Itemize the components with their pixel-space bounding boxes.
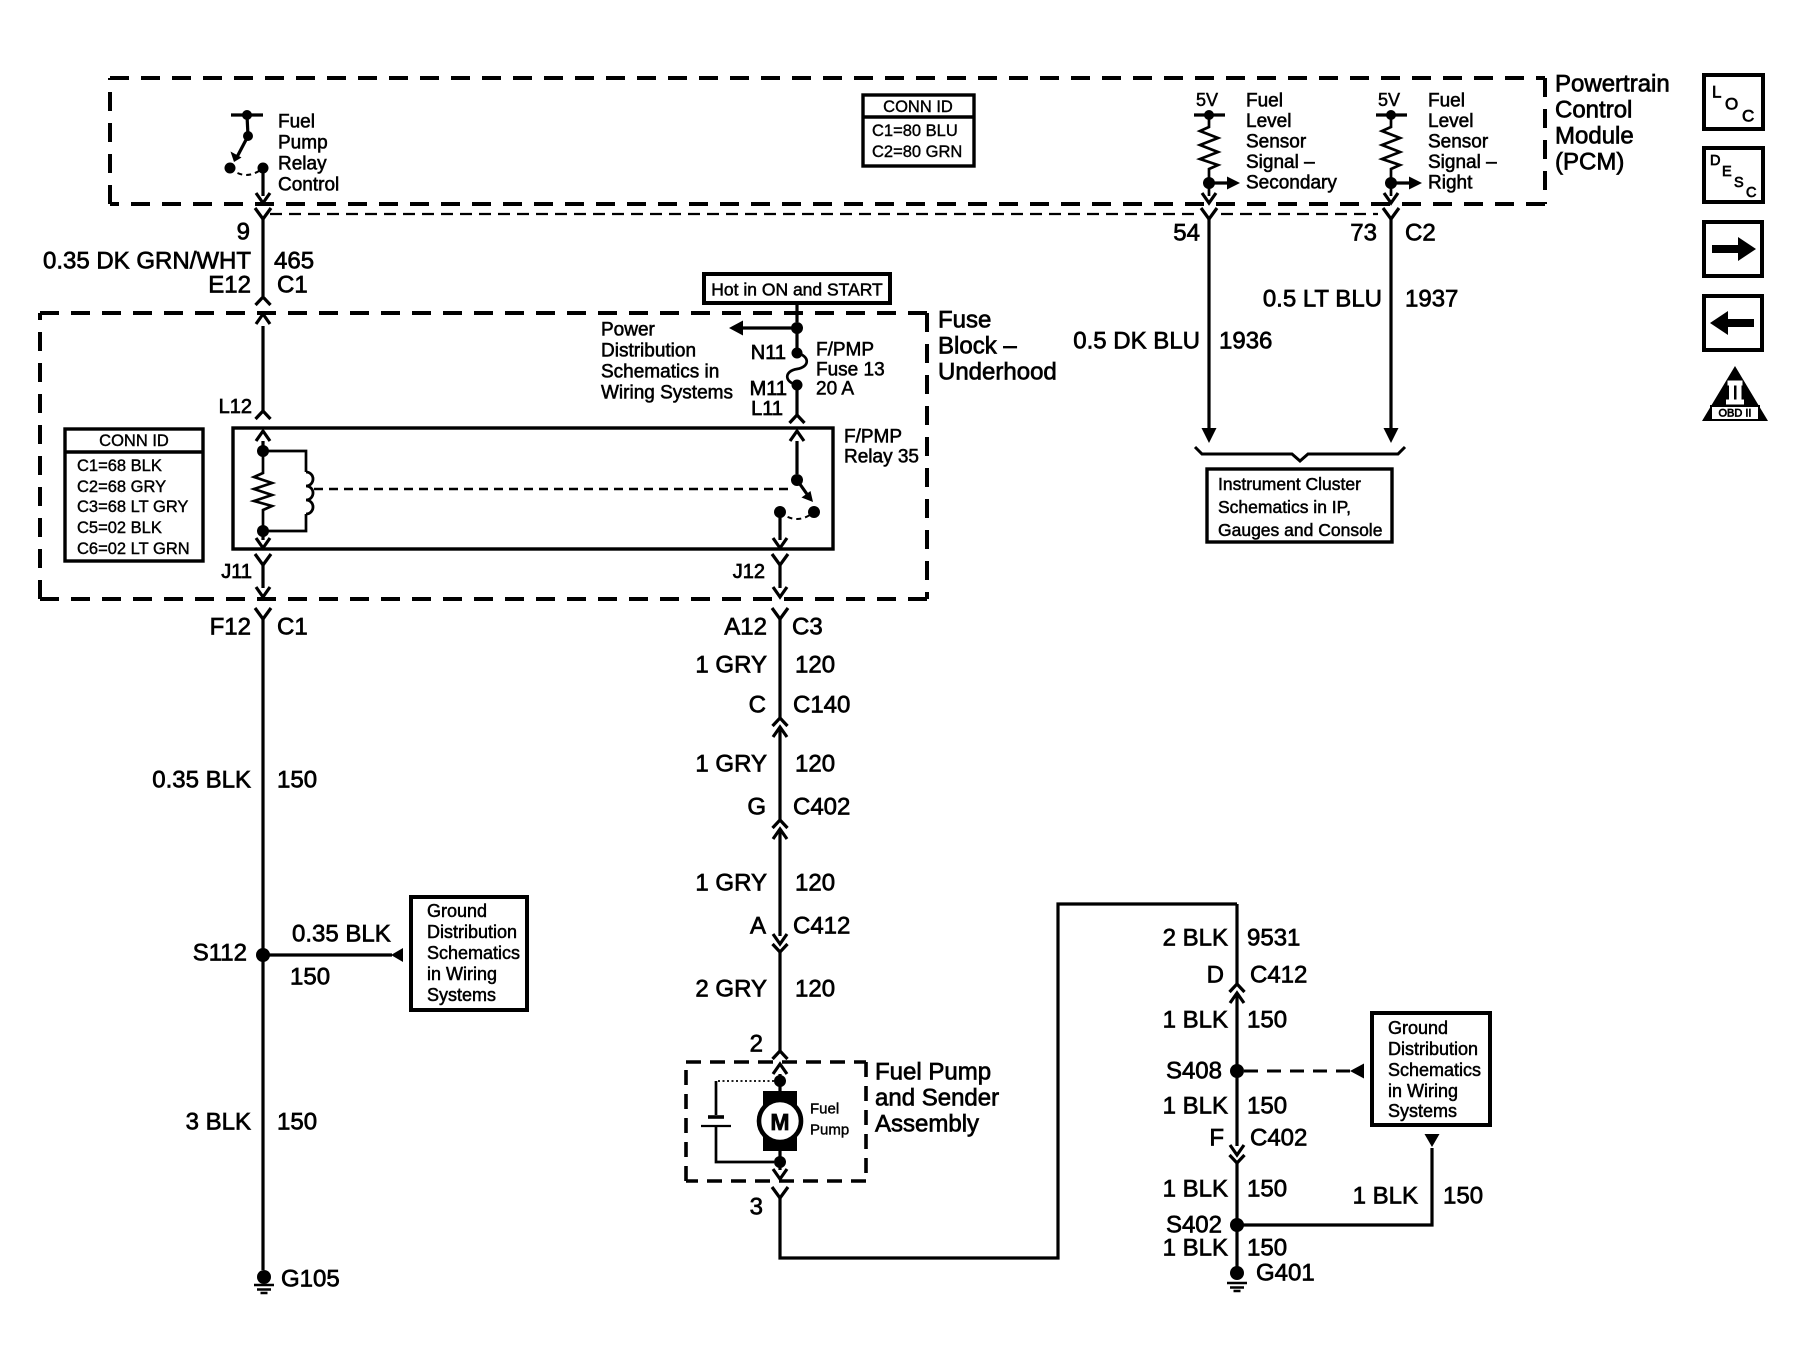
wire: PCM 54 to instrument cluster, ckt 1936 0.5 DK BLU (1201, 208, 1217, 443)
wire: power distribution reference arrow (729, 321, 797, 336)
fuse F/PMP Fuse 13 20A (787, 328, 807, 415)
svg-text:Schematics: Schematics (1388, 1060, 1481, 1080)
connector C / C140 (749, 692, 851, 738)
CONN ID table for fuse block connectors (65, 429, 203, 561)
connector label A12 / C3 (724, 614, 822, 641)
svg-text:Fuel: Fuel (1246, 91, 1283, 112)
svg-text:Schematics in IP,: Schematics in IP, (1218, 497, 1351, 517)
label: Power Distribution Schematics in Wiring Systems (601, 320, 733, 404)
terminal label M11 (750, 378, 787, 400)
svg-text:J12: J12 (733, 561, 765, 583)
svg-text:C402: C402 (793, 794, 850, 821)
svg-text:Distribution: Distribution (1388, 1039, 1478, 1059)
terminal label N11 (751, 342, 786, 364)
fuse block underhood dashed box (40, 313, 927, 599)
svg-text:D: D (1207, 962, 1224, 989)
svg-text:54: 54 (1173, 220, 1200, 247)
relay actuation dashed link (314, 488, 791, 490)
svg-text:M: M (770, 1109, 789, 1135)
ground distribution schematics box (left) (411, 897, 527, 1010)
wire: PCM 73 to instrument cluster, ckt 1937 0.5 LT BLU (1383, 208, 1399, 443)
svg-text:5V: 5V (1196, 90, 1218, 110)
svg-text:Pump: Pump (810, 1122, 849, 1139)
wire: S112 to G105, ckt 150 3 BLK (261, 955, 264, 1270)
svg-text:L12: L12 (219, 396, 252, 418)
svg-text:1 BLK: 1 BLK (1163, 1176, 1228, 1203)
svg-text:150: 150 (1247, 1007, 1287, 1034)
svg-text:C412: C412 (1250, 962, 1307, 989)
wire label 1 BLK 150 (1163, 1176, 1287, 1203)
wire: PCM pin 9 to fuse block, ckt 465 DK GRN/WHT (255, 208, 271, 324)
svg-text:C3=68 LT GRY: C3=68 LT GRY (77, 498, 188, 516)
svg-text:Distribution: Distribution (427, 922, 517, 942)
svg-text:150: 150 (1247, 1093, 1287, 1120)
node S402 splice (1166, 1212, 1244, 1239)
connector G / C402 (747, 794, 850, 840)
svg-text:C1=68 BLK: C1=68 BLK (77, 457, 162, 475)
resistor: fuel level sensor signal pull-up (secondary), 5V (1194, 90, 1240, 203)
svg-text:C: C (1742, 107, 1754, 126)
svg-text:Fuse 13: Fuse 13 (816, 360, 885, 381)
svg-text:and Sender: and Sender (875, 1085, 999, 1112)
svg-text:S: S (1734, 175, 1744, 191)
motor M fuel pump (759, 1075, 801, 1168)
CONN ID table for PCM connectors (863, 95, 974, 166)
wire label 0.5 DK BLU 1936 (1073, 328, 1272, 355)
wire label 1 GRY 120 (695, 751, 835, 778)
svg-text:465: 465 (274, 248, 314, 275)
connector into pump assembly (773, 1051, 788, 1081)
node S408 splice (1166, 1058, 1244, 1085)
terminal label J11 (221, 561, 252, 583)
wire: F12 to S112, ckt 150 0.35 BLK (255, 608, 271, 955)
wire into relay coil from L12 (256, 326, 271, 451)
wire label 1 BLK 150 (branch) (1353, 1183, 1483, 1210)
icon OBD II triangle (1702, 366, 1768, 421)
svg-text:Relay 35: Relay 35 (844, 447, 919, 468)
svg-text:1937: 1937 (1405, 286, 1458, 313)
svg-text:Signal –: Signal – (1428, 152, 1497, 173)
svg-text:(PCM): (PCM) (1555, 149, 1624, 176)
svg-text:120: 120 (795, 751, 835, 778)
label: F/PMP Fuse 13 20 A (816, 340, 885, 400)
terminal label L11 (751, 398, 783, 420)
svg-text:F/PMP: F/PMP (844, 427, 902, 448)
wire: pump to pin 3 (773, 1162, 787, 1179)
svg-text:M11: M11 (750, 378, 787, 400)
label: Fuel Level Sensor Signal - Secondary (1246, 91, 1337, 194)
ground G105 (254, 1266, 340, 1294)
svg-text:Block –: Block – (938, 333, 1017, 360)
svg-text:C1=80 BLU: C1=80 BLU (872, 122, 958, 140)
svg-text:Level: Level (1428, 111, 1473, 132)
svg-text:120: 120 (795, 870, 835, 897)
wire: A12 to C140, ckt 120 1 GRY (772, 608, 788, 718)
svg-text:Sensor: Sensor (1428, 132, 1489, 153)
svg-text:Signal –: Signal – (1246, 152, 1315, 173)
pin label 2 (750, 1031, 763, 1058)
svg-text:Schematics in: Schematics in (601, 362, 719, 383)
svg-text:E12: E12 (208, 272, 251, 299)
label: Fuel Pump Relay Control (278, 112, 339, 196)
wire: C402 to C412, ckt 120 1 GRY (778, 829, 781, 936)
wire: S408 to F C402, ckt 150 1 BLK (1235, 1071, 1238, 1146)
svg-text:0.35 BLK: 0.35 BLK (152, 767, 251, 794)
svg-text:Fuel: Fuel (278, 112, 315, 133)
svg-text:1 BLK: 1 BLK (1163, 1007, 1228, 1034)
svg-text:S112: S112 (193, 940, 247, 967)
svg-text:Control: Control (278, 175, 339, 196)
connector A / C412 (750, 913, 850, 953)
svg-text:1 BLK: 1 BLK (1353, 1183, 1418, 1210)
svg-text:Fuel: Fuel (810, 1101, 839, 1118)
svg-text:1 GRY: 1 GRY (695, 870, 767, 897)
label: Fuse Block - Underhood (938, 307, 1057, 386)
svg-text:2: 2 (750, 1031, 763, 1058)
svg-text:D: D (1710, 153, 1720, 169)
wire: J12 to fuse block edge (772, 554, 788, 597)
instrument cluster schematics box (1207, 469, 1392, 542)
svg-text:C: C (749, 692, 766, 719)
svg-text:9: 9 (237, 219, 250, 246)
wire: down to D C412 (1235, 904, 1238, 984)
svg-text:3: 3 (750, 1194, 763, 1221)
fuel pump and sender assembly dashed box (686, 1062, 866, 1181)
svg-text:20 A: 20 A (816, 379, 854, 400)
svg-text:1936: 1936 (1219, 328, 1272, 355)
svg-text:Fuel Pump: Fuel Pump (875, 1059, 991, 1086)
svg-text:G401: G401 (1256, 1260, 1315, 1287)
label: Fuel Level Sensor Signal - Right (1428, 91, 1497, 194)
svg-text:1 BLK: 1 BLK (1163, 1235, 1228, 1262)
label: Fuel Pump (inside assembly) (810, 1101, 849, 1139)
svg-text:Systems: Systems (1388, 1101, 1457, 1121)
svg-text:Schematics: Schematics (427, 943, 520, 963)
svg-text:L: L (1712, 83, 1721, 102)
svg-text:Systems: Systems (427, 985, 496, 1005)
svg-text:N11: N11 (751, 342, 786, 364)
svg-text:A12: A12 (724, 614, 767, 641)
svg-text:Fuel: Fuel (1428, 91, 1465, 112)
svg-text:in Wiring: in Wiring (427, 964, 497, 984)
svg-text:G: G (747, 794, 766, 821)
svg-text:Module: Module (1555, 123, 1634, 150)
terminal label L12 (219, 396, 252, 418)
icon box left arrow (1704, 296, 1762, 350)
svg-text:Right: Right (1428, 173, 1473, 194)
relay F/PMP Relay 35 box (233, 428, 833, 549)
switch: fuel pump relay control driver inside PCM (225, 110, 271, 203)
svg-text:Powertrain: Powertrain (1555, 71, 1670, 98)
wire label 1 GRY 120 (695, 870, 835, 897)
svg-text:O: O (1725, 95, 1738, 114)
svg-text:Ground: Ground (427, 901, 487, 921)
wire label 0.35 BLK 150 (152, 767, 317, 794)
wire label 1 BLK 150 (1163, 1235, 1287, 1262)
svg-text:Secondary: Secondary (1246, 173, 1337, 194)
svg-text:Sensor: Sensor (1246, 132, 1307, 153)
svg-text:C140: C140 (793, 692, 850, 719)
connector labels 54, 73, C2 (1173, 220, 1200, 247)
battery cell (sender) (701, 1081, 774, 1162)
svg-text:C2=68 GRY: C2=68 GRY (77, 478, 166, 496)
svg-text:C2=80 GRN: C2=80 GRN (872, 143, 962, 161)
svg-text:Underhood: Underhood (938, 359, 1057, 386)
svg-text:F12: F12 (210, 614, 251, 641)
relay coil resistor (parallel R) (254, 445, 272, 531)
brace to instrument cluster (1195, 447, 1405, 461)
PCM module box (Powertrain Control Module) (110, 78, 1545, 204)
connector into relay (L11) (790, 415, 805, 474)
label: Fuel Pump and Sender Assembly (875, 1059, 999, 1138)
svg-text:0.5 LT BLU: 0.5 LT BLU (1263, 286, 1382, 313)
connector label E12 / C1 (208, 272, 307, 299)
wire label 1 BLK 150 (1163, 1093, 1287, 1120)
svg-text:in Wiring: in Wiring (1388, 1081, 1458, 1101)
svg-text:C412: C412 (793, 913, 850, 940)
wire: C412 to S408, ckt 150 1 BLK (1235, 993, 1238, 1071)
svg-text:1 BLK: 1 BLK (1163, 1093, 1228, 1120)
svg-text:L11: L11 (751, 398, 783, 420)
svg-text:C2: C2 (1405, 220, 1436, 247)
svg-text:Level: Level (1246, 111, 1291, 132)
svg-text:150: 150 (277, 1109, 317, 1136)
wire: C402 to S402, ckt 150 1 BLK (1235, 1163, 1238, 1225)
svg-text:J11: J11 (221, 561, 252, 583)
relay switch contact (773, 474, 820, 548)
svg-text:Fuse: Fuse (938, 307, 991, 334)
svg-text:0.35 BLK: 0.35 BLK (292, 921, 391, 948)
svg-text:Assembly: Assembly (875, 1111, 979, 1138)
svg-text:9531: 9531 (1247, 925, 1300, 952)
PCM label text (1555, 71, 1670, 176)
svg-text:OBD II: OBD II (1718, 408, 1751, 420)
wire: coil to J11 (256, 531, 270, 548)
wire label 2 BLK 9531 (1163, 925, 1301, 952)
svg-text:Instrument Cluster: Instrument Cluster (1218, 474, 1361, 494)
resistor: fuel level sensor signal pull-up (right), 5V (1376, 90, 1422, 203)
wire label 1 GRY 120 (695, 652, 835, 679)
svg-text:150: 150 (1443, 1183, 1483, 1210)
wire label 0.5 LT BLU 1937 (1263, 286, 1459, 313)
svg-text:C402: C402 (1250, 1125, 1307, 1152)
svg-text:Power: Power (601, 320, 656, 341)
wire: C140 to C402, ckt 120 1 GRY (778, 727, 781, 820)
wire: S402 branch to ground distribution box, 1 BLK 150 (1237, 1134, 1440, 1225)
svg-text:3 BLK: 3 BLK (186, 1109, 251, 1136)
icon box DESC (1704, 148, 1763, 202)
svg-text:0.5 DK BLU: 0.5 DK BLU (1073, 328, 1200, 355)
wire: pin 3 to right ladder (ground path) (772, 904, 1237, 1258)
svg-text:150: 150 (277, 767, 317, 794)
hot in ON and START feed box (704, 274, 890, 303)
svg-text:150: 150 (290, 964, 330, 991)
svg-text:120: 120 (795, 976, 835, 1003)
svg-text:Ground: Ground (1388, 1018, 1448, 1038)
svg-text:1 GRY: 1 GRY (695, 751, 767, 778)
node S112 splice (193, 940, 270, 967)
wire: C412 to pump pin 2, ckt 120 2 GRY (778, 952, 781, 1051)
svg-text:Wiring Systems: Wiring Systems (601, 383, 733, 404)
svg-text:F: F (1209, 1125, 1224, 1152)
svg-text:F/PMP: F/PMP (816, 340, 874, 361)
svg-text:A: A (750, 913, 766, 940)
svg-text:1 GRY: 1 GRY (695, 652, 767, 679)
wire: S402 to G401, ckt 150 1 BLK (1235, 1225, 1238, 1273)
svg-text:CONN ID: CONN ID (99, 432, 169, 450)
connector label F12 / C1 (210, 614, 308, 641)
wire: S112 to ground distribution reference (263, 948, 403, 962)
terminal label J12 (733, 561, 765, 583)
svg-text:Gauges and Console: Gauges and Console (1218, 520, 1382, 540)
dashed reference: S408 to ground distribution box (1244, 1064, 1364, 1079)
svg-text:73: 73 (1350, 220, 1377, 247)
connector face dashed line C1/C2 (270, 213, 1378, 215)
node label pin 9 (237, 219, 250, 246)
svg-text:150: 150 (1247, 1176, 1287, 1203)
ground G401 (1227, 1260, 1315, 1292)
svg-text:2 BLK: 2 BLK (1163, 925, 1228, 952)
wire label 1 BLK 150 (1163, 1007, 1287, 1034)
svg-text:S408: S408 (1166, 1058, 1222, 1085)
svg-text:E: E (1722, 164, 1732, 180)
svg-text:Control: Control (1555, 97, 1632, 124)
icon box right arrow (1704, 222, 1762, 276)
connector D / C412 (1207, 962, 1308, 1004)
icon box LOC (1704, 75, 1763, 129)
svg-text:Hot in ON and START: Hot in ON and START (711, 280, 883, 300)
svg-text:C: C (1746, 185, 1756, 201)
label: F/PMP Relay 35 (844, 427, 919, 468)
wire: J11 to fuse block edge (255, 554, 271, 597)
wire label 3 BLK 150 (186, 1109, 317, 1136)
svg-text:5V: 5V (1378, 90, 1400, 110)
svg-text:Pump: Pump (278, 133, 328, 154)
svg-text:Distribution: Distribution (601, 341, 696, 362)
svg-text:C6=02 LT GRN: C6=02 LT GRN (77, 540, 190, 558)
svg-text:CONN ID: CONN ID (883, 98, 953, 116)
svg-text:C1: C1 (277, 614, 308, 641)
svg-text:0.35 DK GRN/WHT: 0.35 DK GRN/WHT (43, 248, 251, 275)
wire label 0.35 DK GRN/WHT 465 (43, 248, 314, 275)
svg-text:150: 150 (1247, 1235, 1287, 1262)
wire: fuse feed from ignition (791, 303, 803, 334)
svg-text:C5=02 BLK: C5=02 BLK (77, 519, 162, 537)
svg-text:G105: G105 (281, 1266, 340, 1293)
svg-text:C1: C1 (277, 272, 308, 299)
wire label 0.35 BLK 150 (branch) (290, 921, 391, 991)
svg-text:C3: C3 (792, 614, 823, 641)
svg-text:120: 120 (795, 652, 835, 679)
svg-text:2 GRY: 2 GRY (695, 976, 767, 1003)
pin label 3 (750, 1194, 763, 1221)
ground distribution schematics box (right) (1372, 1013, 1490, 1125)
relay coil winding (257, 451, 313, 537)
connector F / C402 (1209, 1125, 1307, 1164)
wire label 2 GRY 120 (695, 976, 835, 1003)
svg-text:Relay: Relay (278, 154, 327, 175)
